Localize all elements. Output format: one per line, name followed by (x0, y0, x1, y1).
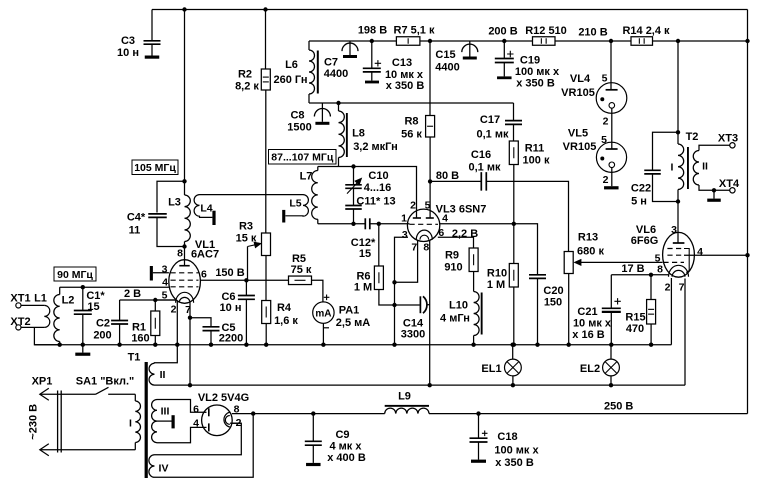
node EL2 heater (609, 383, 613, 387)
svg-text:5: 5 (601, 134, 607, 146)
capacitor C20 (529, 275, 546, 279)
wire III tap (157, 420, 172, 422)
tube VL1 envelope (169, 260, 201, 304)
suppressor tie VL6 (684, 249, 689, 273)
svg-text:T1: T1 (128, 352, 141, 364)
ground XT4 (707, 199, 721, 202)
minus PA1 (324, 327, 330, 329)
heater VL3 (416, 230, 432, 240)
lamp EL1 (505, 359, 522, 376)
svg-text:L1: L1 (34, 293, 47, 305)
plate bar VL6 (678, 242, 684, 244)
node tank bottom C11 (351, 222, 355, 226)
svg-text:2: 2 (665, 282, 671, 294)
svg-text:C18: C18 (497, 431, 517, 443)
svg-text:C8: C8 (290, 110, 304, 122)
capacitor C12 (365, 218, 370, 229)
svg-text:4: 4 (442, 213, 448, 225)
svg-text:15: 15 (87, 301, 99, 313)
cathode VL5 (609, 162, 615, 168)
svg-text:80 В: 80 В (436, 170, 459, 182)
node C9 tap (311, 411, 315, 415)
terminal XT3 (730, 143, 735, 148)
svg-text:R11: R11 (525, 143, 545, 155)
svg-text:17 В: 17 В (621, 263, 644, 275)
wire C2 stem (119, 300, 121, 320)
resistor R11 (509, 141, 518, 165)
wire cell left bottom (308, 94, 310, 103)
wire grid node VL1 (60, 286, 169, 288)
plate bar VL3 section2 (426, 217, 434, 219)
plus PA1 (324, 295, 330, 301)
svg-text:1 М: 1 М (354, 282, 372, 294)
core T1 (145, 362, 148, 478)
wire XT3 (699, 145, 730, 150)
inductor L5 (285, 195, 308, 217)
svg-text:C22: C22 (631, 183, 651, 195)
svg-text:SA1 "Вкл.": SA1 "Вкл." (76, 376, 135, 388)
resistor R7 (396, 37, 420, 46)
wire heater7 to heater bus (189, 318, 191, 386)
wire grid2 to C20 (514, 224, 538, 274)
node meter ground (321, 343, 325, 347)
svg-text:C16: C16 (471, 149, 491, 161)
ground C3 (145, 56, 160, 59)
node IV return (251, 411, 255, 415)
wire 2V node (120, 299, 177, 301)
wire XT4 (699, 185, 730, 190)
anode bars VL2 (204, 411, 207, 413)
wire VL3 heater8 (429, 240, 431, 385)
wire C6 bottom (245, 299, 247, 344)
svg-text:15 к: 15 к (236, 233, 257, 245)
wire R3 wiper to 150V node (247, 247, 249, 281)
svg-text:150: 150 (544, 297, 562, 309)
lamp EL2 (603, 359, 620, 376)
svg-text:910: 910 (444, 262, 462, 274)
plus C21 (614, 298, 620, 304)
svg-text:x 350 В: x 350 В (495, 457, 534, 469)
T1 primary I (135, 394, 140, 450)
capacitor C9 (305, 441, 322, 445)
svg-text:R10: R10 (487, 268, 507, 280)
tube VL3 envelope (407, 209, 439, 241)
node R4 ground (264, 343, 268, 347)
svg-text:XP1: XP1 (32, 376, 53, 388)
wire L4 to L5 link (200, 194, 304, 196)
node C5 ground (209, 343, 213, 347)
node T2 feed (676, 39, 680, 43)
node R6 tap (377, 222, 381, 226)
svg-text:C9: C9 (335, 429, 349, 441)
wire R10 bottom (513, 287, 515, 345)
svg-text:C2: C2 (96, 318, 110, 330)
gas dot VL4 (600, 97, 604, 101)
core L8 (346, 113, 348, 157)
svg-text:680 к: 680 к (577, 246, 604, 258)
wire C19 lower stem (503, 63, 505, 77)
wire top 250V rail (152, 9, 748, 11)
svg-text:100 мк х: 100 мк х (494, 445, 539, 457)
svg-text:2: 2 (171, 304, 177, 316)
wire R2 top (265, 10, 267, 70)
wire C4 bottom (157, 217, 185, 246)
wire XT2 lead (21, 326, 44, 328)
resistor R10 (509, 264, 518, 288)
wire C1 bottom stem (82, 314, 84, 345)
svg-text:C11* 13: C11* 13 (356, 196, 395, 208)
T2 primary I (678, 132, 684, 201)
T1 winding IV (149, 455, 155, 478)
wire mains bottom (40, 449, 135, 451)
ground C9 (306, 463, 321, 466)
capacitor C14 (419, 296, 421, 313)
svg-text:L3: L3 (168, 197, 181, 209)
capacitor C2 (111, 321, 128, 325)
capacitor C1 (74, 311, 92, 315)
wire C17 turn (513, 103, 515, 120)
wire C13 lower stem (371, 72, 373, 81)
wire tank top run (318, 167, 417, 219)
wire C14 to heater lead (428, 304, 430, 306)
node R1 top (153, 298, 157, 302)
plate bar VL1 (184, 247, 186, 266)
svg-text:1 М: 1 М (487, 279, 505, 291)
wire C21 bottom (610, 312, 612, 345)
svg-text:L7: L7 (300, 171, 313, 183)
wiper arrow R13 (580, 261, 663, 263)
node L10 ground (471, 343, 475, 347)
wire C19 stem (503, 41, 505, 58)
wire C5 link (190, 318, 211, 327)
svg-text:7: 7 (411, 242, 417, 254)
node L2 ground (58, 343, 62, 347)
svg-text:1: 1 (401, 213, 407, 225)
wire VL1 heater7 (189, 303, 191, 318)
arrow C10 (347, 180, 360, 194)
inductor L2 (54, 287, 60, 345)
node top rail / R2 (263, 7, 267, 11)
wire C10 chain (353, 167, 355, 185)
svg-text:3: 3 (402, 229, 408, 241)
node grid2 R10 (512, 222, 516, 226)
electrode bar L5 (282, 210, 285, 223)
wire R8 top (429, 41, 431, 116)
svg-text:R3: R3 (239, 221, 253, 233)
svg-text:VL5: VL5 (568, 128, 588, 140)
inductor L7 (312, 167, 318, 224)
wire grid2 to R10 node (440, 223, 514, 225)
ground C18 (471, 460, 486, 463)
wire VL6 heater7 (684, 279, 686, 386)
capacitor C10 (variable) (345, 185, 362, 189)
wire R5 to meter (312, 280, 323, 302)
svg-text:5: 5 (602, 73, 608, 85)
svg-text:VR105: VR105 (563, 141, 597, 153)
wire VL1 plate 150V (200, 279, 288, 281)
tube VL2 envelope (202, 405, 233, 436)
node C1 ground (81, 343, 85, 347)
svg-text:5: 5 (425, 199, 431, 211)
svg-text:R14 2,4 к: R14 2,4 к (622, 25, 670, 37)
svg-text:PA1: PA1 (339, 305, 360, 317)
wire T2 feed (677, 41, 679, 132)
svg-text:C13: C13 (392, 57, 412, 69)
wire 210V segment (555, 40, 631, 42)
svg-text:L8: L8 (352, 128, 365, 140)
wire VL3 heater7 (395, 240, 418, 282)
wire 80V to R13 (486, 181, 568, 251)
wire EL1 top (512, 345, 514, 360)
T2 secondary II (693, 151, 699, 186)
svg-text:x 16 В: x 16 В (572, 329, 604, 341)
svg-text:III: III (161, 406, 170, 418)
inductor L4 (194, 195, 212, 218)
grid dashes VL1 row1 (171, 272, 199, 274)
svg-text:L6: L6 (285, 59, 298, 71)
cathode VL4 (609, 103, 615, 109)
wire cell bottom (309, 102, 514, 104)
svg-text:10 мк х: 10 мк х (573, 318, 612, 330)
svg-text:R9: R9 (445, 250, 459, 262)
node C14 rail (392, 343, 396, 347)
resistor R6 (374, 266, 383, 290)
ground VL5 (604, 186, 619, 189)
ground C19 (497, 76, 512, 79)
node tank C10 top (351, 164, 355, 168)
heater VL6 (669, 265, 689, 277)
wire IV bottom to B+ (155, 414, 254, 478)
plug XP1 arrows (40, 388, 49, 456)
node C1 top (81, 285, 85, 289)
wire from top rail to L3 tank (184, 10, 186, 182)
svg-text:250 В: 250 В (604, 401, 633, 413)
plus C19 (507, 51, 513, 57)
svg-text:10 н: 10 н (220, 302, 242, 314)
svg-text:87...107 МГц: 87...107 МГц (271, 152, 334, 164)
svg-text:210 В: 210 В (578, 27, 607, 39)
svg-text:C7: C7 (324, 57, 338, 69)
wire C1 top stem (82, 287, 84, 310)
switch SA1 (96, 387, 109, 394)
wire VL5 to ground (611, 168, 613, 187)
wire 198V segment (309, 40, 396, 42)
node T2 bottom (676, 199, 680, 203)
grid dashes VL6 row3 control (663, 261, 684, 263)
grid dashes VL6 row2 screen (667, 254, 684, 256)
svg-text:x 350 В: x 350 В (386, 80, 425, 92)
svg-text:75 к: 75 к (291, 264, 312, 276)
wire meter to ground (322, 323, 324, 344)
anode bar VL5 (611, 143, 613, 150)
inductor L9 (385, 408, 429, 414)
svg-text:R13: R13 (578, 232, 598, 244)
svg-text:8: 8 (657, 264, 663, 276)
svg-text:C17: C17 (480, 114, 500, 126)
svg-text:4: 4 (193, 418, 199, 430)
svg-text:5 н: 5 н (631, 196, 647, 208)
wire SA1 to T1 (108, 393, 135, 395)
T1 winding III (152, 399, 157, 442)
node R15 top (649, 273, 653, 277)
svg-text:2: 2 (410, 199, 416, 211)
node EL1 rail (511, 343, 515, 347)
wire cathode to node (155, 299, 176, 301)
wire C18 lower stem (478, 442, 480, 460)
wire EL2 bottom (610, 376, 612, 385)
node 198V C13 (370, 39, 374, 43)
wire C11 to tank bottom (353, 209, 355, 224)
wire C12 to grid1 (370, 223, 408, 225)
wire VL4 feed (610, 41, 612, 83)
wire R8 to 80V node (429, 137, 431, 181)
wire ground rail (34, 344, 671, 346)
resistor R3 (trimmer) (262, 233, 271, 256)
node C6 ground (244, 343, 248, 347)
capacitor C21 (602, 307, 621, 309)
wire R15 top (650, 275, 652, 300)
resistor R15 (647, 300, 656, 325)
svg-text:II: II (702, 161, 708, 173)
svg-text:I: I (671, 162, 674, 174)
node tank bottom (182, 244, 186, 248)
wire III top to pin6 (157, 400, 204, 413)
svg-text:100 мк х: 100 мк х (515, 66, 560, 78)
wire XT1 lead (21, 304, 44, 306)
svg-text:R2: R2 (238, 69, 252, 81)
wire grid1 lead (408, 223, 410, 225)
node R15 ground (649, 343, 653, 347)
svg-text:II: II (160, 369, 166, 381)
svg-text:2 В: 2 В (124, 288, 141, 300)
svg-text:2,2 В: 2,2 В (452, 228, 478, 240)
wire cathode to rail (394, 282, 396, 344)
box 90 MHz (54, 267, 96, 281)
wire C21 top (610, 275, 612, 308)
cathode VL2 (224, 412, 230, 427)
wire 200V segment (420, 40, 533, 42)
inductor L10 (474, 272, 480, 345)
wire C18 stem (478, 414, 480, 438)
svg-text:x 400 В: x 400 В (327, 452, 366, 464)
wire VL1 heater2 (176, 301, 178, 345)
capacitor C8 (314, 103, 330, 125)
core L9 (385, 405, 429, 407)
plate bar VL3 section1 (413, 217, 421, 219)
inductor L6 (309, 50, 315, 94)
svg-text:4: 4 (697, 246, 703, 258)
resistor R9 (469, 248, 478, 272)
node 200V (502, 39, 506, 43)
svg-text:6: 6 (201, 269, 207, 281)
wire C10 to C11 (353, 188, 355, 205)
node R13 ground (567, 343, 571, 347)
wire XT4 ground stem (713, 190, 715, 198)
wire tank bottom run (318, 223, 365, 225)
wiper arrow R3 (248, 244, 258, 246)
svg-text:R15: R15 (625, 312, 645, 324)
svg-text:1500: 1500 (287, 122, 311, 134)
resistor R13 (pot) (564, 252, 573, 274)
terminal XT2 (16, 325, 21, 330)
wire 80V to VL3 plate (429, 181, 431, 218)
svg-text:15: 15 (359, 248, 371, 260)
svg-text:100 к: 100 к (523, 155, 550, 167)
node 150V C6 (244, 278, 248, 282)
wire C22 top link (653, 132, 679, 170)
svg-text:C10: C10 (368, 170, 388, 182)
grid dashes VL1 row2 (171, 279, 199, 281)
svg-text:IV: IV (159, 463, 169, 475)
capacitor C17 (505, 121, 522, 125)
wire mains top (40, 393, 96, 395)
svg-text:C15: C15 (435, 49, 455, 61)
node tank top (182, 179, 186, 183)
plug XP1 bars (57, 391, 59, 453)
wire pin2 out (230, 422, 241, 424)
svg-text:200: 200 (93, 330, 111, 342)
svg-text:11: 11 (129, 225, 141, 237)
resistor R12 (533, 37, 556, 46)
svg-text:~230 В: ~230 В (28, 404, 40, 440)
grid dashes VL3 (410, 223, 439, 225)
tube VL5 envelope (596, 142, 626, 172)
svg-text:3: 3 (162, 264, 168, 276)
svg-text:260 Гн: 260 Гн (273, 74, 307, 86)
svg-text:R12 510: R12 510 (525, 25, 567, 37)
svg-text:3300: 3300 (401, 329, 425, 341)
wire C13 stem (371, 41, 373, 68)
node screen border (745, 253, 749, 257)
svg-text:R7 5,1 к: R7 5,1 к (394, 25, 435, 37)
svg-text:470: 470 (626, 323, 644, 335)
node C18 tap (476, 411, 480, 415)
svg-text:R4: R4 (277, 302, 292, 314)
svg-text:200 В: 200 В (488, 26, 517, 38)
svg-text:VR105: VR105 (561, 87, 595, 99)
wire EL1 bottom (512, 376, 514, 385)
wire R6 bottom (379, 290, 420, 306)
svg-text:T2: T2 (686, 131, 699, 143)
svg-text:6F6G: 6F6G (631, 235, 659, 247)
svg-text:3,2 мкГн: 3,2 мкГн (353, 141, 398, 153)
resistor R8 (426, 116, 435, 138)
svg-text:10 н: 10 н (117, 47, 139, 59)
wire VL3 cathode6 (438, 237, 474, 248)
wire VL6 cathode node (611, 274, 668, 276)
svg-text:90 МГц: 90 МГц (57, 269, 93, 281)
wire R13 to ground (568, 274, 570, 345)
svg-text:XT1: XT1 (10, 293, 30, 305)
wire main ground stem (82, 345, 84, 353)
svg-text:105 МГц: 105 МГц (134, 162, 176, 174)
anode bar VL4 (610, 83, 612, 90)
node heater VL3 (428, 383, 432, 387)
svg-text:C19: C19 (520, 55, 540, 67)
svg-text:XT4: XT4 (719, 178, 740, 190)
node C2 ground (117, 343, 121, 347)
wire R6 top (378, 224, 380, 266)
svg-text:2: 2 (603, 116, 609, 128)
svg-text:6: 6 (438, 227, 444, 239)
capacitor C22 (644, 170, 661, 174)
svg-text:L10: L10 (449, 300, 468, 312)
wire R1 bottom (154, 336, 156, 345)
grid dashes VL1 row3 (171, 286, 199, 288)
node heater2 ground (175, 343, 179, 347)
node R1 ground (153, 343, 157, 347)
svg-text:XT3: XT3 (718, 133, 738, 145)
